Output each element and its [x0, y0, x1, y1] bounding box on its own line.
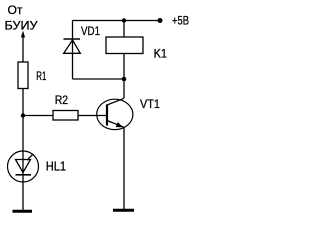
node: input arrow: [21, 31, 25, 38]
node: От БУИУ input label: [5, 3, 38, 32]
svg-text:K1: K1: [154, 46, 167, 60]
wire: emitter wire: [123, 127, 125, 210]
wire: base wire left segment: [23, 115, 53, 117]
wire: top rail: [73, 20, 160, 22]
node: +5V terminal: [158, 18, 163, 23]
wire: left rail (R1 down through HL1 to ground): [22, 89, 24, 211]
wire: VD1 branch vertical: [72, 21, 74, 80]
transistor VT1: [97, 97, 161, 130]
svg-text:R2: R2: [55, 93, 69, 107]
svg-text:VD1: VD1: [81, 24, 100, 38]
node: collector junction: [122, 77, 127, 82]
svg-text:От: От: [8, 3, 23, 17]
svg-text:R1: R1: [36, 69, 46, 83]
svg-text:БУИУ: БУИУ: [5, 18, 38, 32]
ground (right, under VT1 emitter): [113, 209, 134, 212]
node: base junction: [21, 113, 25, 117]
resistor R1: [18, 62, 28, 89]
diode VD1: [64, 24, 101, 53]
wire: base wire right segment: [78, 115, 107, 117]
wire: K1 branch lower: [123, 54, 125, 80]
wire: K1 branch upper: [123, 21, 125, 38]
LED HL1: [8, 151, 67, 182]
resistor R2: [53, 111, 78, 121]
svg-text:HL1: HL1: [46, 158, 66, 173]
ground (left, under HL1): [13, 210, 33, 213]
wire: flyback loop bottom: [73, 78, 125, 80]
svg-text:VT1: VT1: [140, 97, 160, 111]
wire: left rail top (arrow to R1): [22, 38, 24, 63]
relay coil K1: [106, 37, 143, 54]
svg-text:+5В: +5В: [172, 14, 189, 28]
node: top rail junction: [122, 18, 126, 22]
wire: collector wire: [123, 79, 125, 98]
